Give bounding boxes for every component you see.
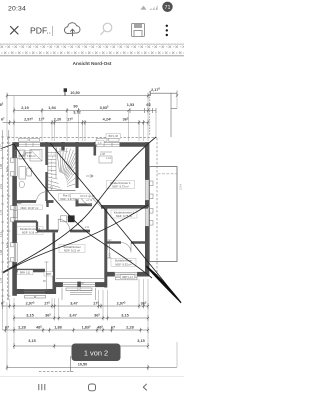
- chimney block: [68, 215, 75, 222]
- status wifi icon: [141, 5, 158, 10]
- svg-text:2,08: 2,08: [100, 153, 105, 156]
- svg-text:4,24¹: 4,24¹: [103, 118, 112, 122]
- svg-text:2,28: 2,28: [18, 325, 25, 329]
- bottom windows: [24, 272, 138, 300]
- row3 line: [3, 121, 149, 123]
- svg-text:1,88: 1,88: [54, 325, 61, 329]
- toolbar save floppy icon: [132, 24, 145, 37]
- stroke B top-right to bottom-left: [3, 137, 156, 272]
- svg-text:BRH 1,13: BRH 1,13: [122, 276, 133, 279]
- svg-text:Kinderzimmer 2: Kinderzimmer 2: [114, 211, 135, 215]
- balcony rectangle: [149, 167, 177, 262]
- svg-text:+2,71: +2,71: [86, 199, 93, 202]
- room labels: [15, 150, 137, 266]
- annotation X strokes + arrow: [1, 137, 181, 303]
- svg-text:3,72: 3,72: [73, 111, 80, 115]
- svg-text:BRH 1,01: BRH 1,01: [20, 272, 31, 275]
- right wall segments: [145, 142, 149, 276]
- svg-text:1,13: 1,13: [0, 231, 3, 237]
- svg-text:Schlafzimmer: Schlafzimmer: [115, 259, 133, 263]
- threshold steps below bottom middle: [70, 291, 92, 295]
- arrow spindle: [147, 266, 182, 302]
- svg-text:1,76: 1,76: [0, 209, 3, 215]
- stroke B2 shallow: [3, 205, 148, 273]
- stair: [48, 142, 76, 191]
- svg-text:1,53: 1,53: [127, 103, 134, 107]
- top dimension rows: [0, 87, 178, 141]
- extension lines dropping to wall: [64, 89, 66, 96]
- svg-text:Bad: Bad: [17, 201, 22, 205]
- extension verticals to building: [7, 94, 177, 142]
- svg-text:2,5%: 2,5%: [179, 183, 183, 190]
- nav bar icons: [0, 377, 184, 391]
- svg-text:1,88: 1,88: [0, 163, 3, 169]
- toolbar cloud upload icon: [64, 23, 80, 36]
- left dimension columns: [0, 130, 10, 309]
- top wall segments: [14, 142, 148, 147]
- svg-text:2,01: 2,01: [109, 253, 112, 258]
- svg-text:5,22: 5,22: [5, 242, 9, 248]
- left wall segments: [12, 142, 17, 296]
- svg-text:Schlafzimmer: Schlafzimmer: [63, 245, 81, 249]
- svg-text:NGF: 9,33 m²: NGF: 9,33 m²: [115, 262, 131, 266]
- svg-text:NGF: 9,21 m²: NGF: 9,21 m²: [64, 249, 80, 253]
- svg-text:3,47: 3,47: [70, 301, 77, 305]
- straight treads: [48, 152, 56, 154]
- status battery circle: [162, 2, 172, 12]
- extension verticals from building to rows: [3, 279, 178, 367]
- svg-text:NGF: 9,73 m²: NGF: 9,73 m²: [112, 185, 128, 189]
- svg-text:67: 67: [111, 325, 115, 329]
- building walls: [11, 138, 183, 300]
- svg-text:2,19: 2,19: [21, 106, 28, 110]
- walk line dashed: [52, 151, 69, 190]
- page pill 1 von 2: [72, 344, 121, 362]
- svg-text:10,50: 10,50: [78, 363, 88, 367]
- interior detail + labels: [13, 134, 137, 295]
- interior walls: [14, 142, 148, 291]
- toolbar close X: [11, 27, 19, 35]
- svg-text:Kinderzimmer 2: Kinderzimmer 2: [20, 227, 41, 231]
- svg-text:3,47: 3,47: [69, 313, 76, 317]
- svg-text:OK FF +2,88: OK FF +2,88: [80, 195, 95, 198]
- bottom wall segments: [13, 272, 148, 294]
- svg-text:3,15: 3,15: [28, 339, 35, 343]
- svg-text:3,15: 3,15: [26, 313, 33, 317]
- svg-text:1,88: 1,88: [0, 249, 3, 255]
- small dim marks right room: [45, 152, 113, 290]
- svg-text:2,0¹: 2,0¹: [85, 226, 89, 229]
- bottom dimension rows: [1, 279, 177, 372]
- svg-text:PDF..: PDF..: [30, 26, 51, 36]
- row1 line 10,50 + 2,17: [7, 95, 150, 97]
- svg-text:2,01: 2,01: [0, 183, 3, 189]
- left windows: [14, 158, 17, 263]
- svg-text:10,50: 10,50: [70, 91, 80, 95]
- svg-text:2,20: 2,20: [54, 118, 61, 122]
- window sill rects outside: [11, 138, 119, 261]
- roof overhang dashed outline: [8, 138, 158, 372]
- toolbar search icon (disabled): [101, 23, 112, 35]
- svg-text:20:34: 20:34: [8, 6, 26, 13]
- svg-text:1 von 2: 1 von 2: [84, 349, 108, 358]
- insulation hatch band (bottom of previous figure): [0, 43, 184, 56]
- winder fan: [57, 148, 60, 172]
- svg-text:BW 1,38: BW 1,38: [109, 135, 119, 138]
- right windows + sills: [145, 180, 153, 227]
- svg-text:1,94: 1,94: [48, 106, 56, 110]
- svg-text:3,15: 3,15: [137, 339, 144, 343]
- toolbar overflow menu dots: [166, 25, 168, 37]
- wall tag boxes: [18, 134, 135, 279]
- svg-text:2,28: 2,28: [126, 325, 133, 329]
- svg-text:NGF: 10,37 m²: NGF: 10,37 m²: [21, 206, 39, 210]
- tiny annotation texts: [20, 152, 112, 285]
- svg-text:71: 71: [165, 5, 171, 11]
- row2 line: [14, 109, 156, 111]
- svg-text:NGF: 9,16 m²: NGF: 9,16 m²: [22, 230, 38, 234]
- svg-text:1,01: 1,01: [106, 157, 111, 160]
- tiny step numbers smudge: [51, 154, 74, 176]
- stroke A-left: [14, 144, 152, 278]
- svg-text:1,76: 1,76: [0, 277, 3, 283]
- top window 1: [19, 143, 121, 147]
- svg-text:65: 65: [146, 103, 150, 107]
- door arcs: [37, 175, 132, 253]
- bath fixtures top-left: [13, 150, 42, 218]
- svg-text:3,15: 3,15: [121, 313, 128, 317]
- wall stub top: [61, 142, 64, 150]
- svg-text:Ansicht Nord-Ost: Ansicht Nord-Ost: [73, 61, 112, 66]
- svg-text:90: 90: [73, 104, 77, 108]
- svg-text:67: 67: [5, 325, 9, 329]
- stroke A-main to arrow: [50, 143, 181, 303]
- svg-text:BRH: BRH: [46, 273, 51, 276]
- svg-text:5,30: 5,30: [5, 166, 9, 172]
